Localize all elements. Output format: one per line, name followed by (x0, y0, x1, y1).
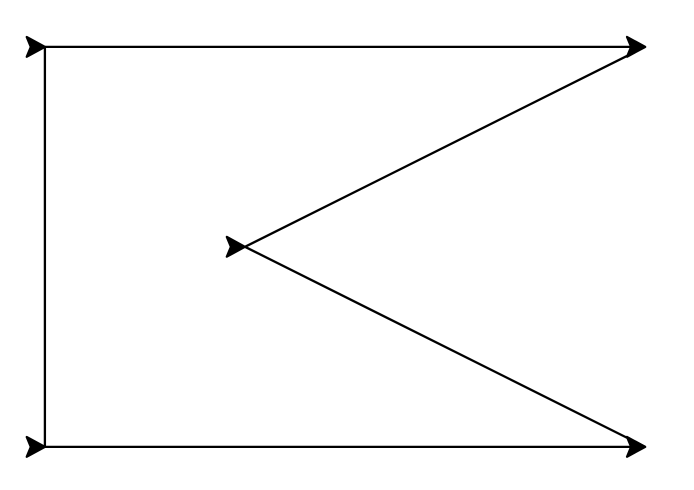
arrowhead at bottom-right node (627, 437, 645, 457)
wire diagonal upper (top-right to middle) (245, 47, 645, 247)
wire diagonal lower (middle to bottom-right) (245, 247, 645, 447)
arrowhead at middle node (227, 237, 245, 257)
wire top horizontal (top-left to top-right) (45, 46, 640, 48)
wire bottom horizontal (bottom-left to bottom-right) (45, 446, 640, 448)
arrowhead at top-left node (27, 37, 45, 57)
arrowhead at bottom-left node (27, 437, 45, 457)
arrowhead at top-right node (627, 37, 645, 57)
wire left vertical (bottom-left to top-left) (44, 47, 46, 447)
